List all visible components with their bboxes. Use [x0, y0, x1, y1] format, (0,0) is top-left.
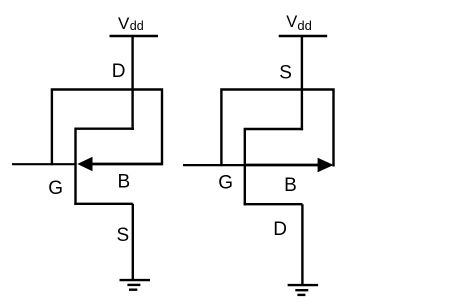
Vdd supply bar (left)	[110, 35, 159, 38]
svg-text:S: S	[117, 225, 130, 246]
svg-text:V: V	[286, 13, 297, 31]
wire: drain bottom jog (right)	[244, 204, 303, 285]
svg-text:D: D	[112, 61, 126, 82]
bulk arrow pointing left (left transistor)	[77, 157, 162, 171]
wire: source lead from Vdd bar down (right)	[301, 36, 303, 130]
svg-text:dd: dd	[130, 19, 144, 33]
Vdd supply bar (right)	[279, 35, 328, 38]
transistor M2 (right 4-terminal MOSFET symbol)	[183, 36, 335, 285]
wire: inner channel step (left)	[74, 128, 134, 206]
wire: drain lead from Vdd bar down (left)	[131, 36, 133, 130]
wire: inner channel step (right)	[244, 128, 304, 206]
wire: source bottom jog (left)	[74, 204, 133, 280]
ground symbol (left)	[120, 280, 151, 290]
svg-text:B: B	[118, 171, 131, 192]
svg-text:D: D	[273, 219, 287, 240]
svg-text:G: G	[218, 172, 233, 193]
wire: outer body outline (left)	[51, 90, 164, 166]
svg-text:G: G	[48, 178, 63, 199]
bulk arrow pointing right (right transistor)	[246, 158, 334, 172]
wire: outer body outline (right)	[220, 90, 335, 167]
wire: gate lead G (right)	[183, 164, 246, 166]
svg-text:S: S	[279, 62, 292, 83]
transistor M1 (left 4-terminal MOSFET symbol)	[12, 36, 163, 280]
svg-text:B: B	[284, 175, 297, 196]
svg-text:dd: dd	[297, 18, 311, 33]
wire: gate lead G (left)	[12, 163, 77, 165]
ground symbol (right)	[288, 285, 319, 295]
svg-text:V: V	[118, 14, 130, 33]
